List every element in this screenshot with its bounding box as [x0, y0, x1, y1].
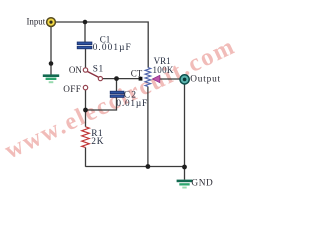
svg-text:Input: Input — [26, 17, 45, 27]
svg-text:100K: 100K — [153, 65, 174, 75]
svg-text:Output: Output — [190, 75, 221, 85]
svg-text:OFF: OFF — [63, 84, 81, 94]
svg-text:0.001µF: 0.001µF — [93, 43, 132, 53]
svg-text:CT: CT — [131, 69, 143, 79]
svg-text:0.01µF: 0.01µF — [116, 99, 148, 109]
svg-text:2K: 2K — [91, 137, 104, 147]
svg-text:S1: S1 — [93, 65, 104, 75]
svg-text:ON: ON — [69, 65, 82, 75]
svg-text:GND: GND — [191, 179, 213, 189]
